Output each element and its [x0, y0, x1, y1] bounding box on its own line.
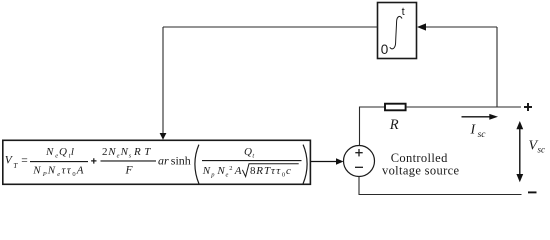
big left paren [195, 145, 199, 184]
svg-text:l: l [71, 146, 74, 158]
wire integrator output left [163, 26, 378, 28]
svg-text:sc: sc [538, 145, 546, 155]
equation V_T [5, 145, 307, 184]
svg-text:sinh: sinh [171, 153, 191, 167]
svg-text:e: e [57, 171, 60, 178]
svg-text:T: T [264, 165, 271, 177]
fraction 2 bar [101, 160, 157, 161]
Vsc double arrow [519, 123, 521, 180]
controlled voltage source [344, 146, 375, 177]
svg-text:8: 8 [250, 165, 256, 177]
wire source top to top rail [359, 107, 361, 146]
svg-text:ar: ar [158, 153, 169, 167]
resistor R [385, 104, 406, 111]
svg-text:N: N [45, 146, 54, 158]
wire down to formula box [162, 27, 164, 134]
svg-text:N: N [120, 146, 129, 158]
Isc current arrow [462, 116, 491, 118]
svg-text:voltage source: voltage source [382, 164, 460, 178]
svg-text:e: e [117, 153, 120, 160]
svg-text:R: R [255, 165, 263, 177]
svg-text:N: N [47, 164, 56, 176]
svg-text:Q: Q [244, 146, 252, 158]
svg-text:A: A [234, 165, 242, 177]
svg-text:2: 2 [229, 165, 232, 172]
svg-text:N: N [32, 164, 41, 176]
plus sign [91, 158, 96, 163]
wire formula box to source [310, 161, 336, 163]
svg-text:sc: sc [478, 130, 487, 140]
svg-text:N: N [107, 146, 116, 158]
svg-text:R: R [133, 146, 141, 158]
svg-text:0: 0 [282, 171, 285, 178]
arrowhead into integrator [417, 23, 426, 30]
inner fraction bar [202, 160, 302, 161]
svg-text:Q: Q [59, 146, 67, 158]
minus terminal [528, 191, 537, 193]
top rail left of resistor [359, 106, 385, 108]
svg-text:t: t [252, 153, 254, 160]
svg-text:=: = [21, 155, 28, 167]
svg-text:e: e [55, 152, 58, 159]
plus inside source [355, 152, 362, 154]
svg-text:N: N [202, 165, 211, 177]
svg-text:0: 0 [381, 42, 389, 57]
plus terminal [524, 106, 532, 108]
svg-text:R: R [389, 117, 399, 133]
bottom rail [359, 194, 522, 196]
formula box [3, 140, 311, 184]
svg-text:N: N [216, 165, 225, 177]
svg-text:t: t [402, 6, 405, 18]
arrowhead into formula box [160, 133, 167, 140]
svg-text:A: A [76, 164, 84, 176]
top rail right of resistor [406, 106, 521, 108]
fraction 1 bar [30, 161, 88, 162]
big right paren [303, 145, 307, 184]
wire from top junction to integrator input [496, 27, 498, 107]
arrowhead into source [336, 158, 344, 165]
svg-text:P: P [42, 171, 47, 178]
minus inside source [355, 166, 363, 168]
svg-text:2: 2 [102, 146, 108, 158]
svg-text:c: c [286, 165, 291, 177]
integrator block U1 [378, 3, 417, 59]
integral sign [390, 16, 402, 48]
svg-text:p: p [210, 171, 215, 178]
wire source bottom to bottom rail [358, 177, 360, 195]
radical sign [242, 164, 298, 177]
svg-text:e: e [226, 171, 229, 178]
svg-text:T: T [144, 146, 151, 158]
svg-text:0: 0 [72, 171, 75, 178]
svg-text:F: F [125, 165, 134, 177]
